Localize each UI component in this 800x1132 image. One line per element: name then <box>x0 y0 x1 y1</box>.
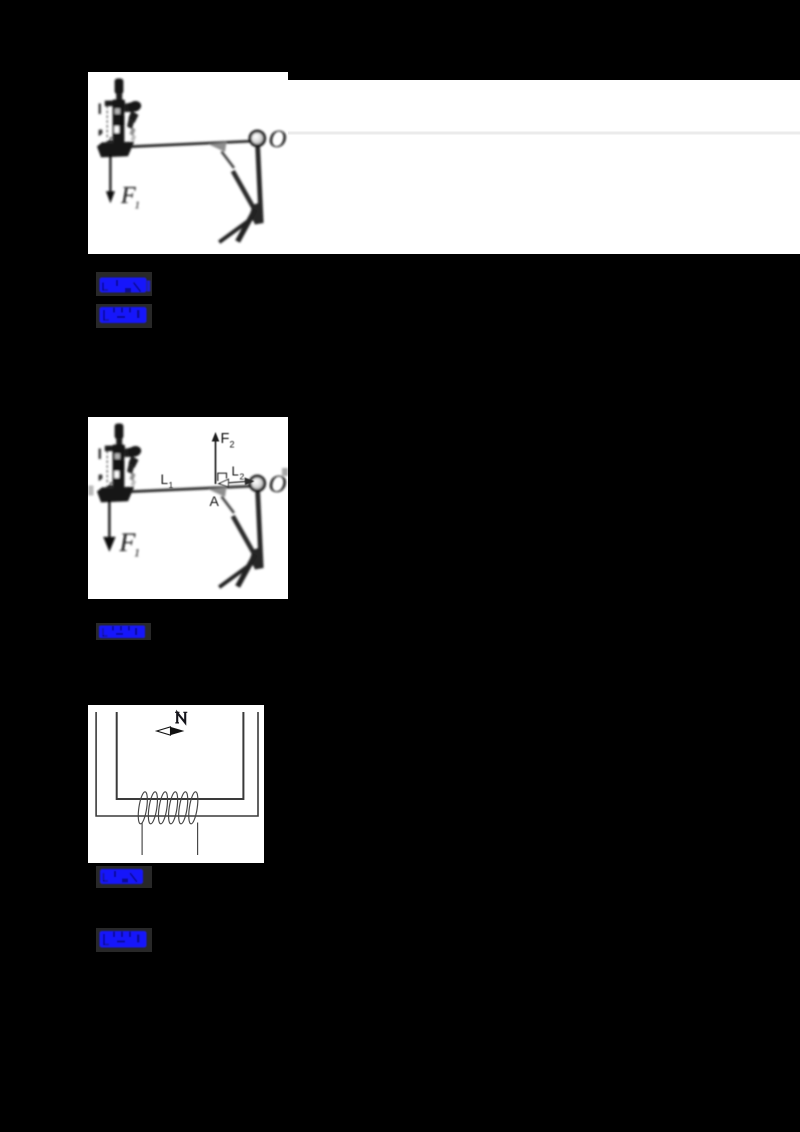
svg-text:2: 2 <box>240 472 245 482</box>
svg-text:L: L <box>232 464 239 479</box>
svg-text:1: 1 <box>169 480 174 490</box>
svg-text:A: A <box>210 493 220 509</box>
svg-text:L: L <box>161 472 169 487</box>
svg-text:2: 2 <box>230 440 235 450</box>
svg-text:1: 1 <box>134 546 140 560</box>
svg-text:F: F <box>221 431 230 447</box>
svg-text:1: 1 <box>135 200 141 212</box>
